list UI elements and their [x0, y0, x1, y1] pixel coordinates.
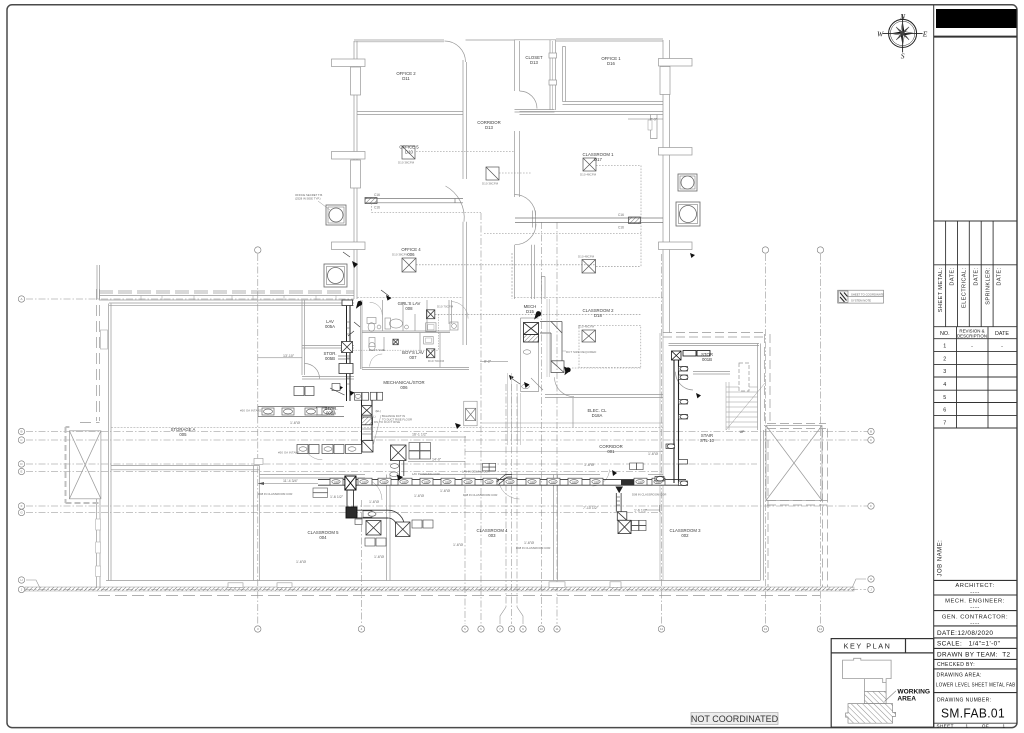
- svg-text:16'-1 1/2": 16'-1 1/2": [412, 433, 428, 437]
- svg-text:-: -: [971, 344, 973, 350]
- left wall stub above band: [96, 265, 98, 299]
- svg-text:2: 2: [943, 356, 946, 362]
- girls lav walls: [361, 300, 451, 369]
- mech room lower arrow: [509, 375, 514, 380]
- svg-text:7'-10 1/2": 7'-10 1/2": [583, 506, 599, 510]
- svg-text:1'-6"Ø: 1'-6"Ø: [648, 452, 658, 456]
- duct T junction center: [345, 476, 356, 490]
- svg-text:7'-9": 7'-9": [650, 118, 658, 122]
- svg-text:H: H: [20, 578, 22, 582]
- svg-text:001: 001: [607, 449, 615, 454]
- heavy line under band: [934, 36, 1017, 38]
- flex duct dashed route upper: [372, 152, 642, 368]
- svg-text:W: W: [877, 29, 884, 38]
- title block left divider: [933, 5, 935, 727]
- svg-text:D17: D17: [594, 157, 602, 162]
- diffuser classroom1: [583, 158, 596, 171]
- svg-text:1'-6"Ø: 1'-6"Ø: [453, 543, 463, 547]
- svg-text:1'-6"Ø: 1'-6"Ø: [290, 421, 300, 425]
- svg-text:C18: C18: [424, 481, 429, 484]
- svg-text:C18: C18: [466, 481, 471, 484]
- svg-text:D10 48CFM: D10 48CFM: [578, 255, 595, 259]
- svg-text:005A: 005A: [325, 324, 335, 329]
- svg-text:SHEET TO COORDINATE: SHEET TO COORDINATE: [851, 293, 884, 297]
- mech duct exit dotted: [572, 367, 641, 369]
- svg-text:DATE:: DATE:: [950, 267, 956, 285]
- svg-text:AREA: AREA: [897, 696, 916, 703]
- riser jog label boxes: [370, 392, 382, 400]
- duct run segment boxes: [330, 478, 665, 485]
- svg-text:DATE:: DATE:: [997, 267, 1003, 285]
- signature columns top line: [934, 220, 1017, 222]
- svg-text:11'-4 3/4": 11'-4 3/4": [283, 479, 299, 483]
- svg-text:007: 007: [409, 355, 417, 360]
- architect row: [942, 583, 1008, 626]
- svg-text:10: 10: [540, 627, 544, 631]
- band roof dash line: [99, 290, 354, 292]
- east duct register boxes: [655, 367, 688, 486]
- svg-text:C18: C18: [445, 481, 450, 484]
- column symbol right B: [676, 202, 700, 226]
- signature column vertical texts: [938, 267, 1003, 312]
- office2/office4 divider wall: [357, 111, 463, 113]
- svg-text:4: 4: [943, 382, 946, 388]
- east section dashed top wall: [663, 333, 828, 588]
- svg-text:002: 002: [681, 533, 689, 538]
- svg-text:008: 008: [405, 306, 413, 311]
- riser lower: [362, 400, 373, 452]
- svg-text:12: 12: [660, 627, 664, 631]
- signature columns mid line: [934, 264, 1017, 266]
- office1 bottom wall: [563, 101, 664, 103]
- diffuser classroom2b: [582, 330, 596, 342]
- svg-text:SPRINKLER:: SPRINKLER:: [985, 267, 991, 304]
- svg-text:F: F: [21, 504, 23, 508]
- svg-text:E: E: [922, 29, 928, 38]
- svg-text:SCALE: 1/4"=1'-0": SCALE: 1/4"=1'-0": [937, 641, 1000, 648]
- east section dashed south jog: [767, 423, 826, 425]
- svg-text:DN TO DUCT RISE: DN TO DUCT RISE: [374, 420, 400, 424]
- corridor east wall upper: [514, 131, 516, 197]
- svg-text:SYSTEM NOTE: SYSTEM NOTE: [851, 299, 871, 303]
- west wall door opening marks: [101, 330, 108, 349]
- svg-text:005A: 005A: [326, 411, 336, 416]
- svg-text:DATE:: DATE:: [973, 267, 979, 285]
- lower title rows: [934, 580, 1017, 723]
- svg-text:D08 IN CLASSROOM COR: D08 IN CLASSROOM COR: [258, 492, 292, 496]
- riser jog chain: [355, 393, 369, 401]
- working area label: [897, 688, 930, 702]
- black header band: [936, 9, 1017, 28]
- svg-text:NOT COORDINATED: NOT COORDINATED: [691, 714, 779, 724]
- classroom5/4 divider: [386, 475, 388, 581]
- svg-text:LAV IN CEILING COR: LAV IN CEILING COR: [462, 470, 490, 474]
- svg-text:NO.: NO.: [940, 331, 950, 337]
- svg-text:JOB NAME:: JOB NAME:: [938, 540, 944, 577]
- duct run micro labels: [334, 481, 661, 484]
- classroom2 duct labels: [618, 213, 624, 230]
- svg-text:(EL): (EL): [376, 409, 381, 413]
- svg-text:C18: C18: [382, 481, 387, 484]
- svg-text:C18: C18: [402, 481, 407, 484]
- duct start label boxes: [313, 488, 328, 497]
- svg-text:004: 004: [319, 535, 327, 540]
- west outer dashed wall: [80, 289, 100, 423]
- svg-text:D10 38CFM: D10 38CFM: [482, 182, 499, 186]
- svg-text:1'-6"Ø: 1'-6"Ø: [524, 541, 534, 545]
- svg-text:1'-6 1/2": 1'-6 1/2": [330, 495, 344, 499]
- svg-text:----: ----: [970, 605, 980, 611]
- left room column box: [254, 458, 263, 464]
- diffuser tags small: [240, 161, 597, 455]
- elec room walls: [545, 395, 663, 428]
- svg-text:D10: D10: [405, 150, 413, 155]
- svg-text:WORKING: WORKING: [897, 688, 930, 695]
- svg-text:C18: C18: [334, 481, 339, 484]
- bottom wall window frames: [228, 582, 621, 588]
- wing right wall: [662, 40, 664, 333]
- corridor east wall: [660, 333, 663, 580]
- arrow heads dark: [352, 253, 701, 476]
- band top wall west: [99, 295, 354, 297]
- svg-text:1'-6"Ø: 1'-6"Ø: [296, 560, 306, 564]
- drop duct below junction: [346, 490, 405, 527]
- diffuser corridor: [486, 167, 499, 180]
- svg-text:D18A: D18A: [592, 413, 603, 418]
- svg-text:D08 IN CLASSROOM COR: D08 IN CLASSROOM COR: [516, 546, 550, 550]
- classroom walls y299 wing bottom: [357, 297, 463, 299]
- column symbol left B: [324, 264, 347, 287]
- mech room D15: [521, 318, 539, 392]
- main vertical riser upper: [347, 306, 351, 402]
- svg-text:5: 5: [943, 395, 946, 401]
- stair treads: [726, 382, 765, 430]
- mid run label grid: [483, 463, 496, 471]
- revision table texts: [940, 329, 1009, 427]
- svg-text:005: 005: [179, 432, 187, 437]
- key plan working area hatched: [846, 691, 896, 723]
- svg-text:D11: D11: [402, 76, 410, 81]
- grid bubbles bottom: [255, 626, 824, 632]
- svg-text:SHEET METAL:: SHEET METAL:: [938, 267, 944, 312]
- svg-text:D10 70CFM: D10 70CFM: [428, 359, 445, 363]
- key plan box: [831, 639, 934, 728]
- mech duct exit arrow: [564, 367, 570, 373]
- east section dashed right wall: [764, 334, 766, 426]
- stor001b walls: [669, 344, 761, 431]
- svg-text:DRAWN BY TEAM: T2: DRAWN BY TEAM: T2: [937, 651, 1011, 658]
- wing top wall right: [556, 38, 663, 40]
- corridor D01 south wall: [465, 451, 663, 453]
- svg-text:C18: C18: [638, 481, 643, 484]
- svg-text:DATE:12/08/2020: DATE:12/08/2020: [937, 630, 993, 637]
- office secret leader: [318, 201, 330, 210]
- svg-text:DUCT SIZE: DUCT SIZE: [369, 348, 385, 352]
- svg-text:B: B: [870, 430, 872, 434]
- drop duct tag boxes: [355, 511, 376, 525]
- svg-text:#50 OA INTAKE: #50 OA INTAKE: [278, 451, 299, 455]
- svg-text:6: 6: [943, 408, 946, 414]
- misc leader arrows upper lav: [343, 252, 389, 296]
- storage north wall: [109, 302, 354, 304]
- svg-text:D18: D18: [594, 313, 602, 318]
- svg-text:B: B: [20, 430, 22, 434]
- svg-text:13: 13: [764, 627, 768, 631]
- classroom1 west wall lower: [531, 245, 533, 299]
- svg-text:C18: C18: [594, 481, 599, 484]
- svg-text:DRAWING NUMBER:: DRAWING NUMBER:: [937, 697, 991, 703]
- diffuser office4: [402, 258, 416, 272]
- svg-text:005B: 005B: [325, 356, 335, 361]
- svg-text:003: 003: [488, 533, 496, 538]
- lav005a walls: [302, 300, 354, 379]
- working area leader: [885, 691, 897, 702]
- svg-text:LAV IN CEILING COR: LAV IN CEILING COR: [412, 472, 440, 476]
- svg-text:(2528 IN SIDE TYP.): (2528 IN SIDE TYP.): [295, 197, 321, 201]
- bottom outer dashed line: [98, 595, 820, 597]
- column symbol left A: [326, 205, 346, 225]
- boys lav walls: [362, 333, 469, 370]
- svg-text:1'-6"Ø: 1'-6"Ø: [440, 489, 450, 493]
- svg-text:C16: C16: [618, 226, 624, 230]
- svg-text:ELECTRICAL:: ELECTRICAL:: [962, 267, 968, 308]
- classroom4 drop connection: [396, 452, 404, 476]
- svg-text:1'-6"Ø: 1'-6"Ø: [584, 463, 594, 467]
- OA intake duct: [258, 407, 344, 417]
- svg-text:1'-6"Ø: 1'-6"Ø: [369, 500, 379, 504]
- svg-text:006: 006: [400, 385, 408, 390]
- mech corridor wall pair: [508, 373, 521, 445]
- not coordinated stamp: [691, 713, 779, 725]
- riser ladder ticks: [347, 322, 373, 434]
- grid bubbles top: [255, 247, 824, 253]
- office4 door arc: [446, 186, 465, 222]
- svg-text:C18: C18: [362, 481, 367, 484]
- diffuser classroom2a: [582, 260, 596, 274]
- dimension texts: [258, 118, 666, 565]
- office secret note: [295, 193, 323, 201]
- svg-text:SM.FAB.01: SM.FAB.01: [941, 706, 1005, 721]
- classroom top walls: [260, 474, 366, 476]
- svg-text:3: 3: [943, 369, 946, 375]
- lav east wall: [449, 299, 467, 345]
- coordination legend box: [838, 290, 884, 303]
- classroom5 diffuser a: [366, 521, 381, 536]
- svg-text:001B: 001B: [702, 357, 712, 362]
- lav flex dotted lines: [340, 314, 439, 350]
- east duct top fitting: [672, 351, 711, 361]
- corridor west wall lower: [462, 222, 464, 299]
- classroom2 west wall: [542, 277, 546, 300]
- band top wall window mullions: [141, 296, 336, 301]
- girls lav door arc: [370, 302, 383, 315]
- classroom1 wall stub: [651, 115, 658, 139]
- classroom1 west wall: [532, 211, 534, 228]
- svg-text:006: 006: [407, 252, 415, 257]
- svg-text:DRAWING AREA:: DRAWING AREA:: [937, 673, 982, 679]
- classroom2 supply duct: [515, 217, 663, 224]
- svg-text:C18: C18: [551, 481, 556, 484]
- band inner wall north: [111, 427, 663, 429]
- svg-text:E: E: [20, 470, 22, 474]
- riser X box: [362, 406, 373, 416]
- svg-text:1: 1: [943, 344, 946, 350]
- stor001b inner wall: [693, 372, 730, 375]
- classroom2 door arc: [555, 377, 575, 397]
- left room top wall: [111, 465, 260, 467]
- office2 right wall: [462, 60, 464, 179]
- lav corridor door arc: [452, 302, 469, 319]
- grid bubbles left: [18, 296, 24, 593]
- svg-text:14: 14: [819, 627, 823, 631]
- classroom1 entry arcs: [515, 195, 537, 245]
- compass rose: [877, 12, 928, 61]
- svg-text:C16: C16: [374, 193, 380, 197]
- svg-text:MECH. ENGINEER:: MECH. ENGINEER:: [945, 599, 1005, 605]
- wing top wall over closet: [514, 39, 556, 41]
- diffuser office3: [402, 146, 415, 159]
- classroom4 drop ovals: [390, 464, 399, 477]
- mid run jog connector: [497, 475, 513, 485]
- svg-text:C18: C18: [530, 481, 535, 484]
- office4 duct labels: [374, 193, 380, 210]
- mech duct horizontal run: [540, 322, 564, 373]
- OA intake ovals: [264, 409, 333, 414]
- grid line H bottom: [26, 589, 866, 591]
- svg-text:DESCRIPTION: DESCRIPTION: [957, 333, 987, 338]
- main horizontal duct run: [318, 480, 686, 486]
- riser fittings upper: [339, 342, 353, 374]
- mech room dark shaft: [524, 323, 539, 343]
- grid bubbles right: [868, 428, 874, 592]
- elec room bottom: [480, 422, 663, 424]
- svg-text:D16: D16: [607, 61, 615, 66]
- drop entry triangle: [615, 487, 623, 494]
- left room right wall: [253, 466, 255, 581]
- svg-text:ARCHITECT:: ARCHITECT:: [955, 583, 994, 589]
- svg-text:D10 48CFM: D10 48CFM: [580, 173, 597, 177]
- svg-text:DCT SIZE REQUIRED: DCT SIZE REQUIRED: [566, 350, 597, 354]
- classroom3 east wall: [760, 430, 762, 581]
- svg-text:C18: C18: [572, 481, 577, 484]
- classroom4/3 divider: [553, 475, 555, 581]
- svg-text:KEY PLAN: KEY PLAN: [844, 641, 892, 650]
- classroom2 west wall lower: [547, 299, 549, 377]
- svg-text:SHEET 1 OF: SHEET 1 OF 1: [937, 723, 1006, 728]
- wing top wall left: [354, 39, 444, 41]
- corridor door arc bottom: [593, 470, 610, 487]
- storage room inner bottom: [106, 580, 760, 582]
- storage west wall: [108, 304, 110, 581]
- svg-text:D10 70CFM: D10 70CFM: [437, 305, 454, 309]
- drop dark segment on run: [621, 479, 634, 485]
- svg-text:D10 48CFM: D10 48CFM: [578, 325, 595, 329]
- mech duct note leader: [562, 350, 566, 352]
- column symbol right A: [678, 174, 697, 191]
- classroom3 east wall dashes: [767, 440, 769, 587]
- svg-text:F: F: [870, 504, 872, 508]
- svg-text:STL-10: STL-10: [700, 438, 715, 443]
- wall pilasters wing right: [659, 59, 750, 392]
- svg-text:1'-6"Ø: 1'-6"Ø: [414, 494, 424, 498]
- wing left wall: [353, 41, 355, 299]
- svg-text:CHECKED BY:: CHECKED BY:: [937, 662, 975, 668]
- central duct small branch boxes: [294, 387, 362, 454]
- svg-text:LOWER LEVEL SHEET METAL FAB: LOWER LEVEL SHEET METAL FAB: [936, 682, 1016, 688]
- svg-text:11: 11: [555, 627, 558, 631]
- svg-text:N: N: [899, 12, 906, 21]
- svg-text:D08 IN CLASSROOM COR: D08 IN CLASSROOM COR: [632, 493, 666, 497]
- svg-text:C18: C18: [656, 481, 661, 484]
- lav diffusers: [393, 310, 435, 358]
- west outer wall lower: [96, 499, 98, 588]
- stor001b door arc: [675, 372, 693, 390]
- wall pilasters wing left: [332, 59, 366, 250]
- shaft X box at grid e: [464, 401, 477, 426]
- classroom door arcs lower: [304, 445, 520, 501]
- wing top wall middle: [466, 39, 515, 41]
- closet left wall: [514, 40, 516, 91]
- svg-text:(EL): (EL): [370, 415, 376, 419]
- lav fixtures: [367, 318, 458, 351]
- classroom5 diffuser b: [396, 522, 411, 537]
- svg-text:D13: D13: [485, 125, 493, 130]
- office1 left wall: [563, 47, 566, 102]
- riser hatch box: [362, 417, 373, 425]
- classroom5 tag boxes: [365, 520, 433, 546]
- east vertical duct: [674, 352, 679, 483]
- elevator shaft west: [66, 427, 101, 503]
- drop duct right: [616, 493, 627, 520]
- svg-text:D15: D15: [526, 309, 534, 314]
- dim line right drop: [645, 505, 660, 512]
- svg-text:C18: C18: [508, 481, 513, 484]
- lav group ducts small: [330, 300, 360, 395]
- svg-text:C16: C16: [374, 206, 380, 210]
- closet bottom wall: [515, 109, 555, 111]
- svg-text:DATE: DATE: [995, 331, 1009, 337]
- svg-text:H: H: [870, 577, 872, 581]
- revision table: [934, 327, 1017, 428]
- grid jog G left: [26, 580, 40, 588]
- duct run oval tags: [332, 480, 662, 484]
- svg-text:D10 38CFM: D10 38CFM: [392, 253, 409, 257]
- west wall lower window frames: [96, 519, 101, 530]
- classroom4 drop arrow: [397, 475, 403, 481]
- svg-text:D10 38CFM: D10 38CFM: [398, 161, 415, 165]
- classroom4 branch diffuser: [391, 445, 407, 461]
- signature column dividers: [946, 221, 994, 327]
- title block: [934, 5, 1017, 727]
- svg-text:D13: D13: [530, 60, 538, 65]
- riser elbow box: [362, 441, 373, 452]
- key plan building outline: [843, 658, 892, 691]
- elevator shaft east: [766, 426, 822, 501]
- riser jog arrows: [338, 385, 355, 396]
- closet door arc: [520, 91, 538, 109]
- boys lav door arc: [370, 354, 383, 367]
- svg-text:----: ----: [970, 620, 980, 626]
- svg-text:1'-6"Ø: 1'-6"Ø: [374, 555, 384, 559]
- dimension lines: [258, 119, 663, 485]
- svg-text:C16: C16: [618, 213, 624, 217]
- lav005a door arc: [305, 364, 320, 379]
- svg-text:#50 OA INTAKE: #50 OA INTAKE: [240, 409, 261, 413]
- closet right wall: [549, 40, 551, 110]
- svg-text:UP: UP: [740, 430, 746, 434]
- svg-text:D08 IN CLASSROOM COR: D08 IN CLASSROOM COR: [463, 493, 497, 497]
- classroom1 top wall: [520, 111, 664, 113]
